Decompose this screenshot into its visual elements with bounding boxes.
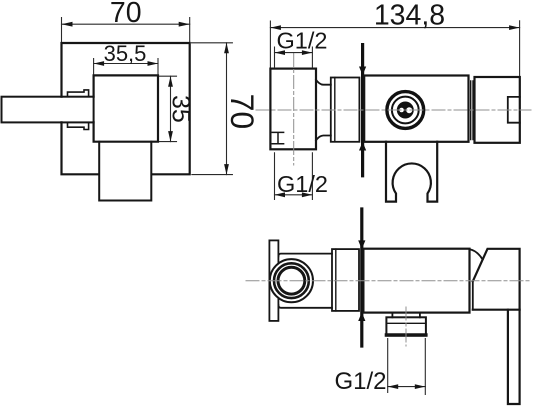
svg-text:35,5: 35,5 — [104, 41, 147, 66]
wall line arrow top — [358, 240, 365, 249]
inlet block detail — [272, 132, 283, 143]
dim G1/2 inlet top: dimension line — [275, 52, 313, 54]
outlet vertical centerline — [405, 307, 407, 346]
wall line arrow top — [359, 67, 366, 76]
wall line arrow bottom — [358, 312, 365, 321]
inlet cylinder — [278, 254, 332, 308]
dim 134,8: dimension line — [270, 27, 519, 29]
spout block below — [99, 142, 151, 201]
inlet thread circles — [270, 259, 313, 302]
dim G1/2 outlet: arrows — [388, 384, 399, 389]
lever handle bar — [2, 97, 94, 123]
dim G1/2 outlet: dimension line — [388, 386, 426, 388]
main body — [364, 76, 468, 142]
dim 70 right: extension lines — [192, 43, 233, 175]
vertical centerline of inlet — [293, 54, 295, 166]
dim 134,8: extension lines — [270, 21, 519, 76]
connecting ring — [471, 81, 473, 140]
lever grip shaft — [508, 310, 520, 404]
inlet block — [270, 69, 316, 150]
dim 35,5: dimension line — [94, 63, 158, 65]
svg-text:70: 70 — [110, 0, 142, 29]
dim 35: arrows — [168, 76, 173, 87]
dim G1/2 inlet top: extension lines — [275, 47, 313, 68]
wall flange (bottom view) — [332, 249, 359, 311]
outlet neck — [392, 313, 420, 318]
horizontal centerline — [246, 280, 531, 282]
dim 134,8: arrows — [270, 25, 281, 30]
lever upper fillet arc — [470, 249, 483, 259]
dim 70 right: dimension line — [226, 43, 228, 175]
svg-text:G1/2: G1/2 — [334, 368, 386, 395]
knob middle ring — [392, 97, 419, 124]
svg-text:70: 70 — [224, 94, 260, 130]
knob center disc with screw holes — [397, 102, 414, 119]
dim 35 right of cartridge: extension lines — [160, 76, 177, 141]
wall line (tile plane) — [361, 45, 364, 176]
cartridge inner square 35.5x35 — [94, 75, 158, 141]
dim 70 right: arrows — [224, 43, 229, 54]
svg-text:35: 35 — [166, 95, 194, 123]
dim 35: dimension line — [170, 76, 172, 141]
wall line arrow bottom — [359, 142, 366, 151]
right end block — [475, 77, 520, 143]
svg-text:G1/2: G1/2 — [277, 171, 328, 197]
knob outer circle — [387, 92, 424, 129]
handle clip bottom — [68, 122, 89, 129]
dim 35,5: extension lines — [94, 59, 158, 74]
wall flange — [331, 78, 360, 142]
inlet plate — [269, 240, 278, 321]
dim G1/2 outlet: extension lines — [388, 339, 426, 395]
dim 35,5: arrows — [94, 61, 105, 66]
lever cap with slanted lever profile — [473, 249, 520, 310]
outlet nut — [386, 317, 426, 335]
dim 70 top: extension lines — [62, 18, 190, 42]
wall line (bottom view) — [360, 209, 363, 346]
svg-text:134,8: 134,8 — [374, 0, 445, 32]
dim 70 top: dimension line — [62, 23, 190, 25]
dim 70 top: arrows — [62, 22, 73, 27]
main body (bottom view) — [363, 249, 469, 313]
dim G1/2 inlet bottom: extension lines — [275, 153, 313, 200]
dim G1/2 inlet bottom: arrows — [275, 192, 286, 197]
lever short edge below pivot — [472, 281, 474, 309]
dim G1/2 inlet top: arrows — [275, 50, 286, 55]
dim G1/2 inlet bottom: dimension line — [275, 194, 313, 196]
horizontal centerline — [256, 109, 531, 111]
neck between block and flange — [316, 80, 331, 141]
svg-text:G1/2: G1/2 — [277, 27, 328, 53]
front plate square 70x70 — [62, 43, 190, 174]
shower holder bracket — [386, 142, 437, 202]
handle clip top — [68, 90, 89, 97]
right end notch — [508, 97, 520, 123]
